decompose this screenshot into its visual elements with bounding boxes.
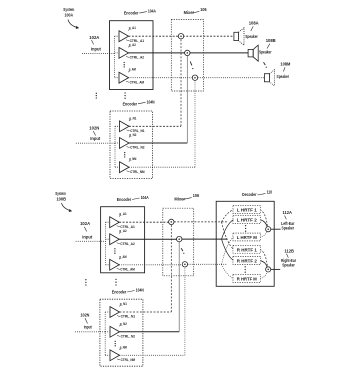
svg-text:104A: 104A [148, 9, 157, 14]
svg-text:g_A2: g_A2 [119, 228, 127, 233]
svg-text:L HRTF 2: L HRTF 2 [237, 218, 258, 223]
svg-text:104N: 104N [147, 99, 155, 104]
svg-text:104A: 104A [141, 195, 150, 200]
svg-text:104N: 104N [136, 288, 144, 293]
svg-text:g_AM: g_AM [119, 254, 126, 259]
svg-text:Decoder: Decoder [242, 192, 257, 197]
svg-text:112A: 112A [282, 210, 292, 215]
svg-text:106: 106 [200, 7, 207, 12]
svg-text:R HRTF 1: R HRTF 1 [237, 247, 258, 252]
svg-text:CTRL_AM: CTRL_AM [130, 79, 145, 84]
svg-text:Input: Input [84, 325, 92, 330]
svg-text:g_NM: g_NM [120, 344, 127, 349]
svg-text:R HRTF M: R HRTF M [237, 277, 258, 282]
svg-text:L HRTF M: L HRTF M [237, 235, 258, 240]
svg-text:CTRL_N1: CTRL_N1 [121, 314, 136, 319]
svg-text:CTRL_A2: CTRL_A2 [130, 55, 145, 60]
svg-text:CTRL_AM: CTRL_AM [120, 267, 135, 272]
svg-text:Speaker: Speaker [282, 263, 295, 268]
svg-text:g_N1: g_N1 [120, 301, 128, 306]
svg-text:CTRL_A2: CTRL_A2 [120, 241, 135, 246]
svg-text:102N: 102N [89, 125, 99, 130]
svg-text:102A: 102A [80, 221, 90, 226]
svg-text:Encoder: Encoder [124, 11, 139, 16]
svg-text:CTRL_N2: CTRL_N2 [121, 334, 136, 339]
svg-text:108A: 108A [249, 20, 259, 25]
svg-text:Speaker: Speaker [259, 50, 272, 55]
svg-text:102N: 102N [80, 312, 89, 317]
svg-text:CTRL_NM: CTRL_NM [121, 357, 136, 362]
svg-text:g_N2: g_N2 [120, 321, 128, 326]
svg-text:CTRL_N2: CTRL_N2 [130, 145, 145, 150]
svg-text:Input: Input [82, 234, 93, 239]
svg-text:110: 110 [267, 189, 273, 194]
svg-text:g_N1: g_N1 [129, 115, 137, 120]
svg-text:Encoder: Encoder [117, 197, 132, 202]
svg-text:L HRTF 1: L HRTF 1 [237, 208, 258, 213]
svg-text:System: System [55, 191, 66, 196]
svg-text:100A: 100A [65, 13, 74, 18]
svg-text:g_N2: g_N2 [129, 132, 137, 137]
svg-text:108M: 108M [280, 61, 290, 66]
svg-text:112B: 112B [284, 248, 294, 253]
svg-text:CTRL_NM: CTRL_NM [130, 169, 145, 174]
svg-text:Speaker: Speaker [282, 225, 295, 230]
svg-text:106: 106 [193, 193, 200, 198]
svg-text:Input: Input [90, 136, 101, 141]
svg-text:g_A2: g_A2 [129, 42, 137, 47]
svg-text:Speaker: Speaker [245, 34, 258, 39]
svg-text:System: System [63, 7, 74, 12]
svg-text:g_NM: g_NM [129, 156, 136, 161]
svg-text:R HRTF 2: R HRTF 2 [237, 259, 258, 264]
svg-text:Encoder: Encoder [123, 101, 138, 106]
svg-text:Encoder: Encoder [112, 290, 127, 295]
svg-text:g_A1: g_A1 [119, 211, 127, 216]
svg-text:g_AM: g_AM [129, 67, 136, 72]
svg-text:Speaker: Speaker [277, 74, 290, 79]
svg-text:Input: Input [91, 46, 102, 51]
svg-text:g_A1: g_A1 [129, 25, 137, 30]
svg-text:100B: 100B [56, 197, 66, 202]
svg-text:108B: 108B [266, 38, 276, 43]
svg-text:102A: 102A [89, 35, 99, 40]
